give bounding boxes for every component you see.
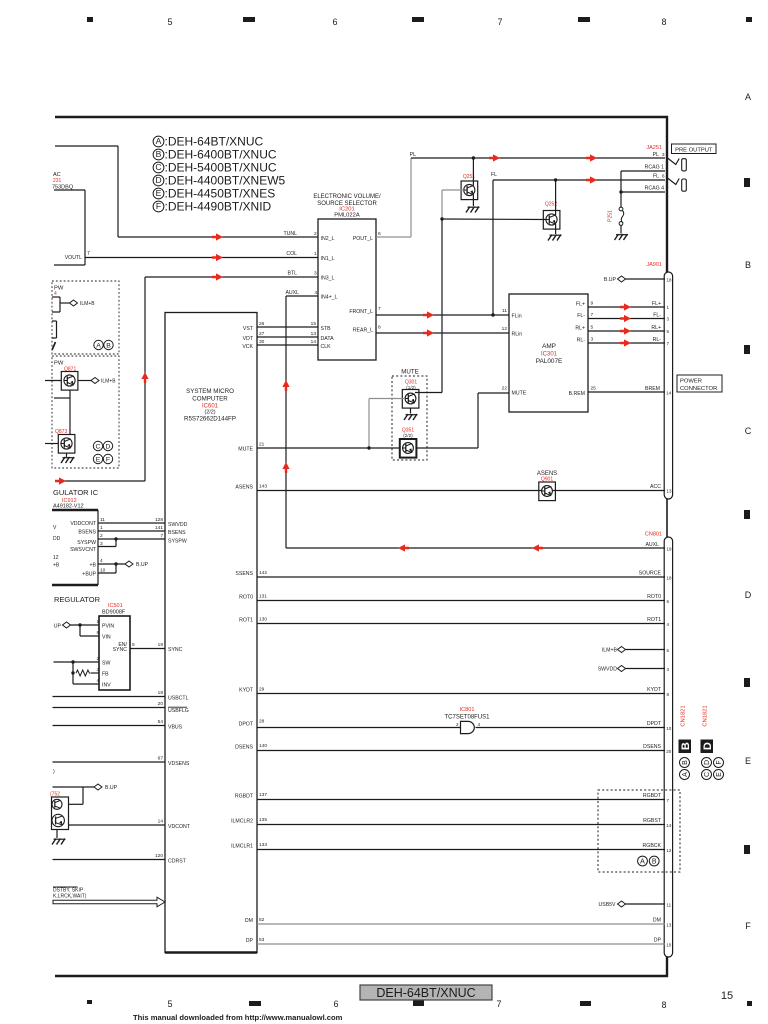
svg-text:ROT0: ROT0 — [647, 594, 661, 600]
wire VST pin26 to STB pin15 — [243, 321, 331, 332]
ground (Q752) — [52, 830, 66, 845]
svg-text:D: D — [745, 590, 752, 600]
svg-text:E: E — [745, 756, 751, 766]
svg-text:DPDT: DPDT — [647, 721, 662, 727]
POWER CONNECTOR label box — [677, 375, 722, 392]
svg-text:IC801: IC801 — [460, 707, 475, 713]
svg-text:1: 1 — [97, 619, 100, 625]
svg-text:ROT1: ROT1 — [647, 617, 661, 623]
svg-text:AUXL: AUXL — [285, 290, 299, 296]
svg-text:ILM+B: ILM+B — [602, 648, 618, 654]
IC IC501 regulator BD9008F — [54, 595, 130, 690]
svg-text:GULATOR IC: GULATOR IC — [53, 488, 99, 497]
transistor Q351 — [400, 428, 417, 458]
node PL pin3 — [653, 152, 665, 158]
svg-text:F: F — [156, 201, 161, 211]
svg-text:2: 2 — [314, 231, 317, 237]
svg-text:13: 13 — [311, 331, 317, 337]
svg-text:SWVDD: SWVDD — [598, 667, 618, 673]
svg-text:5: 5 — [132, 642, 135, 648]
svg-text:VCK: VCK — [242, 344, 253, 350]
ground (Q252) — [548, 224, 562, 241]
wire PL to pre-out — [410, 152, 665, 158]
wire B.REM pin25 to BREM pin14 — [569, 386, 672, 397]
svg-text:TC7SET08FUS1: TC7SET08FUS1 — [444, 715, 490, 721]
IC912 left pin label fragments — [53, 525, 61, 569]
svg-text:B: B — [745, 260, 751, 270]
svg-text:D: D — [155, 175, 161, 185]
page right margin row markers — [744, 178, 750, 854]
svg-text:143: 143 — [259, 484, 267, 490]
svg-text:DM: DM — [653, 918, 661, 924]
svg-text:DPOT: DPOT — [239, 722, 254, 728]
node AUXL pin4 — [285, 290, 337, 301]
svg-text::DEH-64BT/XNUC: :DEH-64BT/XNUC — [165, 135, 264, 149]
wire ILM+B pin5 — [602, 647, 670, 654]
dashed box PW (models A/B) — [52, 281, 119, 354]
svg-text:COL: COL — [286, 251, 297, 257]
svg-text:FRONT_L: FRONT_L — [349, 309, 373, 315]
svg-text:DD: DD — [53, 536, 61, 542]
dashed box RGB lines — [598, 790, 680, 872]
svg-text:SYSTEM MICRO: SYSTEM MICRO — [186, 388, 234, 395]
svg-text:2: 2 — [456, 722, 459, 727]
ground (Q251) — [466, 195, 480, 213]
gate IC801 TC7SET08FUS1 — [444, 707, 490, 721]
svg-text:30: 30 — [259, 339, 265, 345]
svg-text:VST: VST — [243, 326, 254, 332]
node BTL pin3 — [287, 271, 334, 282]
circled letters under CN1821 D — [702, 758, 724, 780]
svg-text:C: C — [745, 426, 752, 436]
wire MUTE pin21 — [238, 442, 400, 453]
model list legend — [153, 135, 285, 214]
IC IC301 power amp PAL007E — [509, 294, 588, 412]
wire RCAG1 shield — [621, 165, 665, 172]
svg-text:E: E — [96, 457, 101, 464]
svg-text:11: 11 — [667, 903, 672, 908]
IC IC601 system micro computer — [165, 313, 257, 953]
IC 753DBQ (tuner, cut off at page edge) — [52, 172, 90, 265]
svg-text:IN3_L: IN3_L — [321, 276, 335, 282]
svg-text:F: F — [716, 760, 723, 764]
svg-text:SSENS: SSENS — [235, 571, 253, 577]
svg-text:19: 19 — [667, 547, 673, 552]
svg-text:10: 10 — [666, 943, 672, 948]
JA901 pin numbers on audio pins — [0, 0, 1, 1]
wire FL+ pin9 to JA901 pin1 — [576, 301, 670, 311]
svg-text:TUNL: TUNL — [283, 231, 297, 237]
svg-text:6: 6 — [662, 174, 665, 180]
svg-text:VDT: VDT — [243, 336, 254, 342]
arrow on AUXL vertical 1 — [282, 380, 289, 391]
svg-text:8: 8 — [661, 17, 666, 27]
svg-text:IN1_L: IN1_L — [321, 256, 335, 262]
svg-text:12: 12 — [502, 326, 508, 332]
footer manualowl text — [133, 1013, 343, 1022]
svg-text:4: 4 — [97, 678, 100, 684]
svg-text:12: 12 — [53, 555, 59, 561]
wire VDT pin27 to DATA pin13 — [243, 331, 334, 342]
svg-text:SYSPW: SYSPW — [77, 540, 96, 546]
svg-text:KYDT: KYDT — [647, 687, 662, 693]
svg-text:18: 18 — [667, 278, 673, 283]
svg-text:133: 133 — [259, 842, 267, 848]
svg-text:25: 25 — [591, 386, 597, 392]
connector JA901 label — [646, 262, 662, 268]
svg-text:7: 7 — [87, 251, 90, 257]
svg-text:7: 7 — [378, 306, 381, 312]
wire USB5V pin11 — [598, 901, 671, 908]
svg-text:B.UP: B.UP — [136, 562, 149, 568]
svg-text:4: 4 — [100, 558, 103, 564]
svg-text:142: 142 — [259, 570, 267, 576]
wire FL- pin7 to JA901 pin3 — [577, 312, 669, 322]
transistor Q901 (ASENS) — [537, 471, 557, 501]
wire B.UP to Q752 — [53, 784, 118, 804]
svg-text:B.UP: B.UP — [604, 277, 617, 283]
transistor Q871 — [61, 367, 78, 391]
svg-text:RLin: RLin — [512, 332, 523, 338]
arrow on PL 1 — [489, 154, 500, 161]
node COL pin1 — [286, 251, 334, 262]
IC IC912 regulator box — [52, 488, 99, 585]
svg-text:54: 54 — [158, 719, 164, 725]
svg-text:RCAG 1: RCAG 1 — [645, 165, 664, 171]
svg-text:STB: STB — [321, 326, 332, 332]
bus arrow into micro — [53, 897, 165, 907]
svg-text:): ) — [53, 769, 55, 775]
svg-text:2: 2 — [97, 656, 100, 662]
svg-text:4: 4 — [478, 722, 481, 727]
svg-text:4: 4 — [54, 291, 57, 297]
connector CN801 label — [645, 532, 662, 538]
wire FRONT_L to FLin pin11 — [376, 308, 522, 320]
svg-text:B.REM: B.REM — [569, 391, 585, 397]
transistor Q252 — [543, 202, 560, 230]
arrow on TUNL — [212, 233, 223, 240]
svg-text:MUTE: MUTE — [238, 447, 253, 453]
svg-text:BSENS: BSENS — [168, 530, 186, 536]
wire Q251 base (gray) — [442, 190, 464, 219]
svg-text:SOURCE: SOURCE — [639, 571, 662, 577]
wire VIN pin8 branch — [80, 625, 111, 641]
svg-text:13: 13 — [667, 489, 673, 494]
wire DPOT pin28 to DPDT pin10 through gate — [239, 719, 672, 732]
svg-text:137: 137 — [259, 792, 267, 798]
arrow on BTL vertical — [141, 372, 148, 383]
svg-text:6: 6 — [378, 231, 381, 237]
wire SW pin2 — [54, 656, 111, 667]
svg-text:6: 6 — [333, 999, 338, 1009]
wire COL net (VOUTL) — [85, 257, 318, 259]
svg-text:SYNC: SYNC — [113, 647, 128, 653]
arrow on PL 2 — [586, 154, 597, 161]
wire RL- pin3 to JA901 pin7 — [577, 337, 670, 347]
svg-text:FL+: FL+ — [576, 302, 585, 308]
svg-text:27: 27 — [259, 331, 265, 337]
svg-text:18: 18 — [667, 576, 673, 581]
svg-text:R5S72662D144FP: R5S72662D144FP — [184, 416, 236, 423]
wire REAR_L to RLin pin12 — [376, 326, 522, 338]
svg-text:A: A — [156, 136, 162, 146]
svg-text:15: 15 — [311, 321, 317, 327]
svg-text:11: 11 — [100, 517, 105, 523]
svg-text:ILM+B: ILM+B — [80, 301, 95, 307]
svg-text:8: 8 — [97, 630, 100, 636]
svg-text:E: E — [156, 188, 162, 198]
svg-text:VIN: VIN — [102, 635, 111, 641]
svg-text:AMP: AMP — [542, 343, 556, 350]
wire FL net — [491, 172, 665, 315]
schematic frame border — [55, 116, 668, 977]
RCA jack symbol 2 — [668, 178, 687, 191]
svg-text:POWER: POWER — [680, 379, 702, 385]
node FL pin6 — [653, 174, 665, 180]
svg-text:UP: UP — [54, 624, 62, 630]
svg-text:C: C — [155, 162, 161, 172]
svg-text:12: 12 — [666, 848, 672, 853]
svg-text:K,LRCK,WAIT): K,LRCK,WAIT) — [53, 894, 87, 900]
wire stub into vertical — [54, 397, 70, 399]
svg-text:RGBCK: RGBCK — [643, 843, 662, 849]
svg-text:14: 14 — [158, 819, 164, 825]
circled letters A B — [94, 340, 113, 349]
svg-text:INV: INV — [102, 683, 111, 689]
svg-text:21: 21 — [259, 442, 265, 448]
svg-text:5: 5 — [591, 325, 594, 331]
svg-text:CN801: CN801 — [645, 532, 662, 538]
svg-text::DEH-4400BT/XNEW5: :DEH-4400BT/XNEW5 — [165, 174, 286, 188]
svg-text:SYSPW: SYSPW — [168, 539, 187, 545]
wire Q301 base gray — [369, 399, 404, 449]
wire POUT_L (gray) — [376, 158, 411, 237]
svg-text:B: B — [156, 149, 162, 159]
svg-text:28: 28 — [259, 719, 265, 725]
svg-text:A: A — [745, 92, 751, 102]
wire ILMCLR1 pin133 to RGBCK pin12 — [231, 842, 672, 853]
svg-text:IC301: IC301 — [541, 352, 558, 358]
text fragment — [53, 769, 55, 775]
circled letters under CN1821 B — [680, 758, 690, 780]
node TUNL pin2 — [283, 231, 334, 242]
circled letters C D E F — [93, 441, 112, 463]
svg-text:USB5V: USB5V — [598, 902, 616, 908]
wire INV pin4 — [73, 678, 111, 689]
arrow on AUXL horizontal — [398, 544, 543, 551]
circled letters A B in RGB dashed box — [638, 856, 660, 866]
svg-text:IN2_L: IN2_L — [321, 236, 335, 242]
svg-text:7: 7 — [160, 533, 163, 539]
svg-text:RGBDT: RGBDT — [235, 794, 254, 800]
svg-text::DEH-5400BT/XNUC: :DEH-5400BT/XNUC — [165, 161, 277, 175]
junction PL/Q251 — [472, 156, 475, 159]
junction FL/Q252 — [554, 178, 557, 181]
wire ROT1 pin130 to pin4 — [239, 617, 669, 628]
svg-text:B: B — [652, 859, 657, 866]
svg-text:DP: DP — [654, 938, 662, 944]
svg-text:+BUP: +BUP — [82, 572, 96, 578]
svg-text:ASENS: ASENS — [235, 485, 253, 491]
wire CDRST pin120 — [53, 853, 187, 865]
wire Q873 base — [45, 443, 58, 445]
node AUXL pin19 — [645, 542, 672, 552]
svg-text:11: 11 — [502, 308, 507, 314]
svg-text:VDSENS: VDSENS — [168, 761, 190, 767]
svg-text:JA251: JA251 — [646, 145, 662, 151]
wire VCK pin30 to CLK pin14 — [242, 339, 331, 350]
wire +BUP pin10 branch — [82, 564, 116, 578]
svg-text:B: B — [682, 760, 689, 765]
wire Q871 base — [45, 380, 61, 382]
svg-text:5: 5 — [167, 999, 172, 1009]
svg-text:131: 131 — [259, 594, 267, 600]
svg-text:REGULATOR: REGULATOR — [54, 595, 101, 604]
svg-text:19: 19 — [158, 642, 164, 648]
node AMP MUTE pin22 — [502, 386, 527, 397]
wire Q871 emitter to Q873 — [69, 390, 71, 435]
svg-text:FL: FL — [491, 172, 497, 178]
svg-text:20: 20 — [666, 749, 672, 754]
svg-text:MUTE: MUTE — [401, 369, 419, 376]
svg-text:RL+: RL+ — [651, 325, 661, 331]
svg-text:PML022A: PML022A — [334, 213, 360, 219]
svg-text:USBFLG: USBFLG — [168, 708, 189, 714]
svg-text::DEH-6400BT/XNUC: :DEH-6400BT/XNUC — [165, 148, 277, 162]
svg-text:C: C — [96, 444, 101, 451]
svg-text:SWVDD: SWVDD — [168, 522, 188, 528]
wire RCAG vertical — [619, 171, 622, 207]
svg-text:ILMCLR1: ILMCLR1 — [231, 844, 253, 850]
svg-text:FL-: FL- — [653, 313, 661, 319]
svg-text:DM: DM — [245, 918, 253, 924]
svg-text:P251: P251 — [608, 210, 614, 222]
svg-text:22: 22 — [502, 386, 508, 392]
svg-text:B: B — [680, 742, 692, 750]
svg-text:SW: SW — [102, 661, 110, 667]
svg-text:B: B — [106, 343, 111, 350]
svg-text:IC501: IC501 — [108, 603, 123, 609]
junction mute drive — [440, 217, 443, 220]
arrow on FL — [586, 176, 597, 183]
dashed box MUTE — [392, 369, 427, 461]
svg-text:FL-: FL- — [577, 313, 585, 319]
wire mute drive down — [441, 219, 443, 393]
wire mute drive to Q252 — [442, 218, 546, 221]
svg-text:FL+: FL+ — [652, 301, 661, 307]
svg-text:140: 140 — [259, 743, 267, 749]
svg-text:KYDT: KYDT — [239, 688, 254, 694]
svg-text:PAL007E: PAL007E — [536, 358, 563, 365]
svg-text:ACC: ACC — [650, 484, 661, 490]
svg-text:7: 7 — [591, 312, 594, 318]
svg-text:A: A — [96, 343, 101, 350]
wire ILMCLR2 pin135 to RGBST pin14 — [231, 817, 672, 828]
svg-text:5: 5 — [167, 17, 172, 27]
svg-text:3: 3 — [314, 271, 317, 277]
wire Q351 to AMP MUTE pin22 — [416, 393, 509, 448]
svg-text:14: 14 — [666, 823, 672, 828]
wire ASENS pin143 to ACC pin13 — [235, 484, 672, 494]
page bottom column markers — [87, 990, 752, 1010]
IC IC201 electronic volume/source selector — [313, 194, 381, 360]
wire SYSPW to pin7 — [77, 533, 187, 546]
svg-text:C: C — [704, 772, 711, 777]
svg-text:VDCONT: VDCONT — [168, 824, 191, 830]
svg-text:120: 120 — [155, 853, 163, 859]
svg-text:FB: FB — [102, 672, 109, 678]
wire VDDCONT to SWVDD pin128 — [70, 517, 187, 528]
ILM+B arrow (Q871) — [78, 378, 116, 385]
svg-text:B.UP: B.UP — [105, 785, 118, 791]
svg-text:1: 1 — [100, 525, 103, 531]
svg-text:VOUTL: VOUTL — [65, 255, 82, 261]
svg-text:This manual downloaded from ht: This manual downloaded from http://www.m… — [133, 1013, 343, 1022]
svg-text:DSENS: DSENS — [643, 744, 661, 750]
svg-text:DSENS: DSENS — [235, 745, 253, 751]
svg-text:1: 1 — [314, 251, 317, 257]
wire BTL net — [55, 277, 318, 481]
ground (Q301) — [404, 408, 418, 420]
wire RL+ pin5 to JA901 pin5 — [575, 325, 669, 335]
RCA jack symbol 1 — [668, 158, 687, 171]
svg-text:+B: +B — [53, 563, 60, 569]
ground (P251) — [615, 226, 629, 241]
transistor Q251 — [461, 174, 478, 200]
connector JA251 labels — [646, 145, 662, 151]
svg-text:13: 13 — [666, 923, 672, 928]
svg-text:PVIN: PVIN — [102, 624, 114, 630]
connector CN1821 label (D) — [701, 705, 714, 753]
wire BSENS to pin141 — [78, 525, 186, 536]
svg-text:128: 128 — [155, 517, 163, 523]
svg-text:10: 10 — [666, 726, 672, 731]
svg-text:9: 9 — [591, 301, 594, 307]
dashed box PW (models C-F) — [52, 356, 119, 468]
svg-text:ILMCLR2: ILMCLR2 — [231, 819, 253, 825]
svg-text:18: 18 — [158, 690, 164, 696]
ILM+B arrow (PW box A/B) — [70, 300, 96, 307]
node FRONT_L pin7 — [349, 306, 381, 315]
svg-text:D: D — [702, 742, 714, 750]
svg-text:ROT0: ROT0 — [239, 595, 253, 601]
svg-text:D: D — [704, 760, 711, 765]
svg-text:COMPUTER: COMPUTER — [192, 396, 228, 403]
svg-text:DATA: DATA — [321, 336, 335, 342]
svg-text:A: A — [682, 772, 689, 777]
svg-text:RL-: RL- — [577, 338, 586, 344]
page top column markers — [87, 17, 752, 27]
svg-text:DEH-64BT/XNUC: DEH-64BT/XNUC — [376, 986, 475, 1000]
svg-text:DP: DP — [246, 938, 254, 944]
svg-text:RL+: RL+ — [575, 326, 585, 332]
node REAR_L pin8 — [353, 325, 381, 334]
wire VBUS pin54 — [53, 719, 183, 731]
wire SSENS pin142 to SOURCE pin18 — [235, 570, 672, 581]
svg-text:10: 10 — [100, 568, 106, 574]
PRE OUTPUT label box — [672, 144, 717, 154]
svg-text:7: 7 — [497, 17, 502, 27]
svg-text:CN1821: CN1821 — [681, 705, 687, 726]
svg-text:CONNECTOR: CONNECTOR — [680, 386, 717, 392]
wire RCAG4 shield — [621, 186, 665, 193]
svg-text:8: 8 — [378, 325, 381, 331]
svg-text:(2/2): (2/2) — [403, 433, 413, 438]
svg-text:FLin: FLin — [512, 314, 522, 320]
svg-text:VDDCONT: VDDCONT — [70, 521, 96, 527]
svg-text:29: 29 — [259, 687, 265, 693]
svg-text:4: 4 — [315, 290, 318, 296]
